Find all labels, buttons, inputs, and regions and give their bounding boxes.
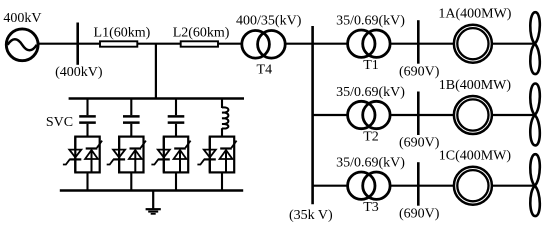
svg-text:400/35(kV): 400/35(kV) <box>236 14 302 29</box>
svg-text:400kV: 400kV <box>3 11 41 26</box>
svg-text:35/0.69(kV): 35/0.69(kV) <box>336 14 405 29</box>
svg-text:T1: T1 <box>363 58 379 73</box>
svg-text:1A(400MW): 1A(400MW) <box>438 7 511 22</box>
svg-text:(690V): (690V) <box>399 206 440 221</box>
svg-text:35/0.69(kV): 35/0.69(kV) <box>336 156 405 171</box>
svg-text:T3: T3 <box>363 200 379 215</box>
svg-text:(690V): (690V) <box>399 64 440 79</box>
svg-text:SVC: SVC <box>46 115 73 130</box>
svg-text:T2: T2 <box>363 129 379 144</box>
svg-text:T4: T4 <box>257 63 273 78</box>
svg-text:1B(400MW): 1B(400MW) <box>439 78 512 93</box>
svg-text:(690V): (690V) <box>399 136 440 151</box>
svg-text:L2(60km): L2(60km) <box>173 25 230 40</box>
svg-text:1C(400MW): 1C(400MW) <box>439 149 512 164</box>
svg-text:(35k V): (35k V) <box>289 208 333 223</box>
svg-text:L1(60km): L1(60km) <box>94 25 151 40</box>
svg-text:35/0.69(kV): 35/0.69(kV) <box>336 85 405 100</box>
svg-text:(400kV): (400kV) <box>55 65 103 80</box>
